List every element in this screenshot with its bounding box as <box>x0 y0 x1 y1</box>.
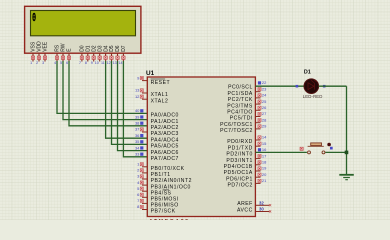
svg-text:30: 30 <box>259 207 264 212</box>
svg-text:PD2/INT0: PD2/INT0 <box>226 152 252 158</box>
U1 pin 5 (PB4/SS) <box>137 186 171 197</box>
wire D4→PA4 <box>106 61 148 138</box>
U1 pin 22 (PC0/SCL) <box>228 80 267 91</box>
push button unconnected-style marker <box>300 147 303 150</box>
LED D1 value label LED-RED <box>303 94 323 99</box>
svg-text:D1: D1 <box>304 70 311 76</box>
U1 pin 33 (PA7/ADC7) <box>135 152 179 163</box>
svg-text:PA5/ADC5: PA5/ADC5 <box>151 144 179 150</box>
LCD pin stubs and terminal markers (pins 1-14) <box>30 53 125 65</box>
svg-text:PB3/AIN1/OC0: PB3/AIN1/OC0 <box>151 184 191 190</box>
svg-text:PA7/ADC7: PA7/ADC7 <box>151 156 179 162</box>
wire RW→PA1 <box>63 61 147 120</box>
svg-text:17: 17 <box>262 153 267 158</box>
svg-text:PC1/SDA: PC1/SDA <box>227 91 252 97</box>
svg-text:LED-RED: LED-RED <box>303 94 323 99</box>
U1 pin 36 (PA4/ADC4) <box>135 133 179 144</box>
LCD display module LCD1 (LM016L) body <box>25 6 141 53</box>
wire RS→PA0 <box>57 61 147 113</box>
svg-text:PA0/ADC0: PA0/ADC0 <box>151 113 179 119</box>
svg-text:AREF: AREF <box>237 201 253 207</box>
svg-text:14: 14 <box>262 135 267 140</box>
U1 pin 30 (AVCC) power pin <box>237 207 271 214</box>
svg-text:14: 14 <box>119 61 123 65</box>
U1 pin 28 (PC6/TOSC1) <box>220 117 267 128</box>
U1 pin 25 (PC3/TMS) <box>227 99 267 110</box>
U1 pin 14 (PD0/RXD) <box>227 135 267 146</box>
LCD text "0" <box>32 11 36 25</box>
U1 pin 15 (PD1/TXD) <box>228 141 267 152</box>
svg-text:13: 13 <box>135 88 140 93</box>
U1 pin 34 (PA6/ADC6) <box>135 145 179 156</box>
U1 pin 38 (PA2/ADC2) <box>135 121 179 132</box>
svg-text:19: 19 <box>262 166 267 171</box>
svg-text:PB5/MOSI: PB5/MOSI <box>151 197 179 203</box>
svg-text:37: 37 <box>135 127 140 132</box>
svg-text:28: 28 <box>262 117 267 122</box>
wire E→PA2 <box>69 61 147 126</box>
svg-text:22: 22 <box>262 80 267 85</box>
svg-text:40: 40 <box>135 108 140 113</box>
svg-text:VEE: VEE <box>43 41 49 52</box>
LED D1 right pin end dot <box>323 85 326 88</box>
U1 pin 8 (PB7/SCK) <box>137 204 176 215</box>
svg-text:PC6/TOSC1: PC6/TOSC1 <box>220 122 253 128</box>
LED D1 left pin end dot <box>296 85 299 88</box>
svg-text:PC5/TDI: PC5/TDI <box>230 116 253 122</box>
U1 pin 6 (PB5/MOSI) <box>137 192 178 203</box>
svg-text:12: 12 <box>135 94 140 99</box>
svg-text:PD3/INT1: PD3/INT1 <box>226 158 252 164</box>
svg-text:18: 18 <box>262 160 267 165</box>
svg-text:35: 35 <box>135 139 140 144</box>
push button right terminal <box>322 151 325 154</box>
svg-text:29: 29 <box>262 124 267 129</box>
svg-text:3: 3 <box>42 61 44 65</box>
svg-text:PC2/TCK: PC2/TCK <box>228 97 253 103</box>
svg-text:PD6/ICP1: PD6/ICP1 <box>226 176 253 182</box>
U1 pin 27 (PC5/TDI) <box>230 111 267 122</box>
U1 pin 13 (XTAL1) <box>135 88 168 99</box>
svg-text:PC3/TMS: PC3/TMS <box>227 103 253 109</box>
LED D1 body <box>304 79 319 94</box>
svg-text:PB2/AIN0/INT2: PB2/AIN0/INT2 <box>151 178 192 184</box>
U1 pin 1 (PB0/T0/XCK) <box>137 162 184 173</box>
wire D5→PA5 <box>112 61 148 144</box>
wire D7→PA7 <box>123 61 147 157</box>
U1 pin 40 (PA0/ADC0) <box>135 108 179 119</box>
U1 pin 37 (PA3/ADC3) <box>135 127 179 138</box>
svg-text:7: 7 <box>79 61 81 65</box>
svg-text:D7: D7 <box>121 45 127 52</box>
U1 pin 39 (PA1/ADC1) <box>135 114 179 125</box>
svg-text:16: 16 <box>262 147 267 152</box>
svg-text:ATMEGA32: ATMEGA32 <box>149 219 190 220</box>
U1 pin 12 (XTAL2) <box>135 94 168 105</box>
U1 pin 29 (PC7/TOSC2) <box>220 124 267 135</box>
svg-text:PB0/T0/XCK: PB0/T0/XCK <box>151 166 185 172</box>
U1 pin 2 (PB1/T1) <box>137 168 170 179</box>
svg-text:4: 4 <box>54 61 56 65</box>
svg-text:PA1/ADC1: PA1/ADC1 <box>151 119 179 125</box>
svg-text:PD7/OC2: PD7/OC2 <box>227 183 252 189</box>
svg-text:PD4/OC1B: PD4/OC1B <box>224 164 253 170</box>
svg-text:PC7/TOSC2: PC7/TOSC2 <box>220 128 253 134</box>
svg-text:15: 15 <box>262 141 267 146</box>
U1 pin 4 (PB3/AIN1/OC0) <box>137 180 191 191</box>
svg-text:XTAL2: XTAL2 <box>151 98 169 104</box>
svg-text:PC4/TDO: PC4/TDO <box>227 110 253 116</box>
svg-text:6: 6 <box>66 61 68 65</box>
wire LED D1 cathode to net corner <box>319 85 347 87</box>
LCD screen <box>31 11 136 36</box>
svg-text:2: 2 <box>36 61 38 65</box>
svg-text:PC0/SCL: PC0/SCL <box>228 85 253 91</box>
U1 pin 16 (PD2/INT0) <box>226 147 267 158</box>
svg-text:23: 23 <box>262 86 267 91</box>
svg-text:26: 26 <box>262 105 267 110</box>
svg-text:PB4/SS: PB4/SS <box>151 190 172 196</box>
push button actuator cap <box>308 143 324 146</box>
wire U1 pin22 (PC0) to LED D1 anode <box>255 85 304 87</box>
svg-text:PB1/T1: PB1/T1 <box>151 172 171 178</box>
svg-text:RESET: RESET <box>151 80 170 86</box>
U1 pin 32 (AREF) power pin <box>237 200 271 207</box>
U1 pin 3 (PB2/AIN0/INT2) <box>137 174 192 185</box>
svg-text:34: 34 <box>135 145 140 150</box>
svg-text:24: 24 <box>262 93 267 98</box>
svg-text:PA6/ADC6: PA6/ADC6 <box>151 150 179 156</box>
svg-text:PD5/OC1A: PD5/OC1A <box>224 170 253 176</box>
microcontroller U1 (ATmega32) body <box>147 77 255 217</box>
wire push button to junction <box>325 151 346 153</box>
svg-text:36: 36 <box>135 133 140 138</box>
U1 pin 24 (PC2/TCK) <box>228 93 267 104</box>
svg-text:21: 21 <box>262 178 267 183</box>
U1 part name label (clipped at image bottom) <box>149 219 190 225</box>
svg-text:1: 1 <box>30 61 32 65</box>
svg-text:XTAL1: XTAL1 <box>151 92 169 98</box>
svg-text:AVCC: AVCC <box>237 207 253 213</box>
U1 reference label <box>146 70 155 77</box>
push button interactive red dot <box>327 143 331 147</box>
U1 pin 9 (RESET) <box>137 75 170 86</box>
LCD pin labels VSS VDD VEE RS RW E D0-D7 <box>31 41 127 52</box>
wire U1 pin16 (PD2/INT0) to push button <box>255 151 307 153</box>
svg-text:PB7/SCK: PB7/SCK <box>151 209 176 215</box>
svg-text:39: 39 <box>135 114 140 119</box>
svg-text:11: 11 <box>101 61 105 65</box>
svg-text:10: 10 <box>95 61 99 65</box>
U1 pin 19 (PD5/OC1A) <box>224 166 268 177</box>
svg-text:PA3/ADC3: PA3/ADC3 <box>151 131 179 137</box>
svg-text:PD0/RXD: PD0/RXD <box>227 139 253 145</box>
svg-text:13: 13 <box>113 61 117 65</box>
U1 pin 23 (PC1/SDA) <box>227 86 267 97</box>
svg-text:32: 32 <box>259 200 264 205</box>
wire D6→PA6 <box>118 61 148 151</box>
LED D1 reference label <box>304 70 311 76</box>
svg-text:25: 25 <box>262 99 267 104</box>
svg-text:33: 33 <box>135 152 140 157</box>
svg-text:27: 27 <box>262 111 267 116</box>
U1 pin 21 (PD7/OC2) <box>227 178 267 189</box>
svg-text:0: 0 <box>32 11 36 25</box>
svg-text:PD1/TXD: PD1/TXD <box>228 145 253 151</box>
U1 pin 7 (PB6/MISO) <box>137 198 178 209</box>
svg-text:U1: U1 <box>146 70 155 77</box>
svg-text:PB6/MISO: PB6/MISO <box>151 203 179 209</box>
push button left terminal <box>308 151 311 154</box>
svg-text:20: 20 <box>262 172 267 177</box>
svg-text:5: 5 <box>60 61 62 65</box>
svg-text:12: 12 <box>107 61 111 65</box>
U1 pin 26 (PC4/TDO) <box>227 105 267 116</box>
svg-text:9: 9 <box>91 61 93 65</box>
svg-text:8: 8 <box>85 61 87 65</box>
svg-text:PA2/ADC2: PA2/ADC2 <box>151 125 179 131</box>
U1 pin 17 (PD3/INT1) <box>226 153 267 164</box>
U1 pin 18 (PD4/OC1B) <box>224 160 268 171</box>
svg-text:PA4/ADC4: PA4/ADC4 <box>151 137 179 143</box>
U1 pin 20 (PD6/ICP1) <box>226 172 267 183</box>
junction node <box>345 151 349 155</box>
vertical net wire (LED cathode / button / ground) <box>346 86 348 174</box>
U1 pin 35 (PA5/ADC5) <box>135 139 179 150</box>
svg-text:38: 38 <box>135 121 140 126</box>
ground symbol <box>339 175 354 180</box>
push button right pin end dot <box>330 147 333 150</box>
